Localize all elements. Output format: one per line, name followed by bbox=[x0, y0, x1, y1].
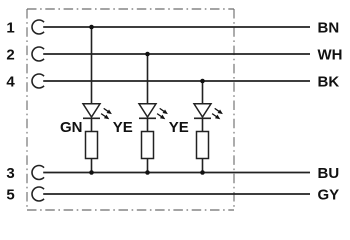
resistor R1 bbox=[86, 132, 98, 159]
LED GN emission arrow 2 bbox=[101, 114, 109, 120]
svg-text:1: 1 bbox=[6, 19, 14, 36]
pin 4 contact bbox=[32, 74, 44, 88]
junction branch2/wire BU bbox=[145, 170, 150, 175]
junction branch3/wire BK bbox=[200, 79, 205, 84]
junction branch2/wire WH bbox=[145, 52, 150, 57]
wire LED YE to resistor R3 bbox=[202, 118, 204, 131]
LED YE emission arrow 2 (branch 3) bbox=[212, 114, 220, 120]
wire WH (pin 2) bbox=[43, 53, 310, 55]
svg-text:WH: WH bbox=[318, 46, 343, 63]
wire GY (pin 5) bbox=[43, 193, 310, 195]
wire BN (pin 1) bbox=[43, 26, 310, 28]
svg-text:3: 3 bbox=[6, 165, 14, 182]
LED GN diode D1 bbox=[83, 104, 100, 119]
pin 5 contact bbox=[32, 187, 44, 201]
branch 2 wire (pin 2 to LED YE) bbox=[147, 54, 149, 105]
pin 3 contact bbox=[32, 166, 44, 180]
svg-text:YE: YE bbox=[169, 119, 189, 136]
junction branch3/wire BU bbox=[200, 170, 205, 175]
branch 3 wire (pin 4 to LED YE) bbox=[202, 81, 204, 105]
wire BU (pin 3) bbox=[43, 172, 310, 174]
LED YE emission arrow 1 (branch 3) bbox=[215, 108, 223, 114]
resistor R2 bbox=[142, 132, 154, 159]
svg-text:2: 2 bbox=[6, 46, 14, 63]
svg-text:YE: YE bbox=[113, 119, 133, 136]
svg-text:5: 5 bbox=[6, 186, 14, 203]
svg-text:GY: GY bbox=[318, 186, 340, 203]
wire resistor R3 to wire BU bbox=[202, 159, 204, 173]
wire LED YE to resistor R2 bbox=[147, 118, 149, 131]
wire resistor R2 to wire BU bbox=[147, 159, 149, 173]
wire BK (pin 4) bbox=[43, 80, 310, 82]
svg-text:4: 4 bbox=[6, 73, 15, 90]
wire resistor R1 to wire BU bbox=[91, 159, 93, 173]
svg-text:BK: BK bbox=[318, 73, 340, 90]
pin 1 contact bbox=[32, 20, 44, 34]
svg-text:BN: BN bbox=[318, 19, 340, 36]
LED YE emission arrow 1 (branch 2) bbox=[160, 108, 168, 114]
resistor R3 bbox=[197, 132, 209, 159]
junction branch1/wire BU bbox=[89, 170, 94, 175]
branch 1 wire (pin 1 to LED GN) bbox=[91, 27, 93, 105]
svg-text:BU: BU bbox=[318, 165, 340, 182]
connector housing outline (dash-dot box) bbox=[27, 9, 234, 210]
LED YE diode D2 bbox=[139, 104, 156, 119]
svg-text:GN: GN bbox=[60, 119, 83, 136]
junction branch1/wire BN bbox=[89, 25, 94, 30]
LED YE emission arrow 2 (branch 2) bbox=[157, 114, 165, 120]
pin 2 contact bbox=[32, 47, 44, 61]
LED YE diode D3 bbox=[194, 104, 211, 119]
wire LED GN to resistor R1 bbox=[91, 118, 93, 131]
LED GN emission arrow 1 bbox=[104, 108, 112, 114]
